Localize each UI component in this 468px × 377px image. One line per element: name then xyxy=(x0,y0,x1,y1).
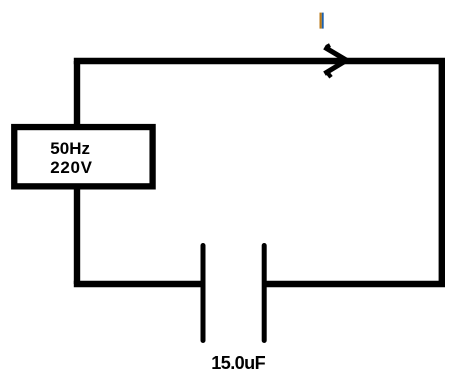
wire left-upper xyxy=(74,61,80,124)
wire left-lower xyxy=(74,189,80,284)
svg-text:15.0uF: 15.0uF xyxy=(211,353,265,373)
current arrow xyxy=(325,45,347,77)
wire right xyxy=(439,61,445,284)
label I (current) xyxy=(320,13,324,29)
capacitor C1 xyxy=(203,246,264,341)
wire top xyxy=(74,58,445,64)
svg-text:220V: 220V xyxy=(50,158,92,177)
wire bottom-right xyxy=(264,281,445,287)
AC source V1 xyxy=(14,127,152,186)
svg-text:50Hz: 50Hz xyxy=(50,139,90,158)
wire bottom-left xyxy=(74,281,203,287)
